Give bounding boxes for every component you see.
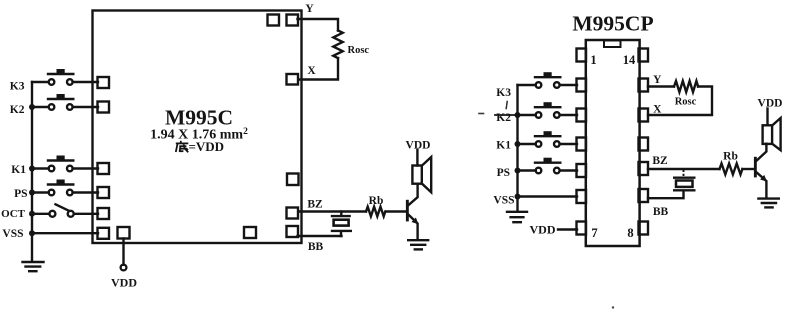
pushbutton switch K3 (right): [535, 72, 560, 88]
junction VSS/bus: [29, 230, 35, 236]
pin 5 PS (U2 left): [577, 164, 587, 177]
U2 index notch: [604, 41, 621, 48]
pad K2 (U1 left edge): [98, 102, 110, 113]
pad X (U1 right edge): [287, 74, 299, 85]
wire Rb to Q2 base: [742, 168, 753, 170]
piezo buzzer BZ2 (right): [648, 170, 694, 198]
label VDD (left bottom): [111, 276, 137, 290]
label net PS (right): [497, 167, 510, 179]
transistor Q2 (NPN, right): [754, 144, 767, 198]
wire BZ pad to Rb: [299, 210, 367, 212]
wire K1 row (right): [518, 143, 578, 145]
svg-text:K1: K1: [496, 139, 511, 151]
pushbutton switch K2 (right): [535, 102, 560, 118]
pin 7 VDD (U2 left): [577, 222, 587, 235]
ground Q1 emitter: [408, 240, 428, 249]
pushbutton switch PS: [48, 180, 73, 196]
pushbutton switch K3: [48, 69, 73, 85]
svg-text:VSS: VSS: [493, 194, 514, 206]
label net OCT: [1, 208, 26, 220]
svg-text:VSS: VSS: [2, 228, 23, 240]
label net BZ (right): [652, 155, 668, 167]
label net K2 (right): [496, 112, 511, 124]
resistor Rosc (left, vertical): [333, 31, 342, 59]
svg-text:Rosc: Rosc: [348, 45, 370, 56]
ground VSS (right circuit): [507, 212, 527, 222]
svg-text:X: X: [307, 65, 316, 77]
svg-text:1: 1: [590, 53, 596, 67]
svg-text:VDD: VDD: [406, 140, 431, 152]
wire Rb to Q1 base: [386, 210, 406, 212]
label net BZ (left): [307, 199, 323, 211]
label Rosc (left): [348, 45, 370, 56]
IC U2 M995CP DIP-14 body: [586, 40, 640, 246]
wire K2 row: [32, 106, 98, 108]
svg-text:=VDD: =VDD: [189, 139, 225, 154]
pad top spare (U1 top edge): [268, 15, 280, 26]
svg-text:K2: K2: [10, 104, 25, 116]
label net BB (right): [653, 206, 669, 218]
wire Y pad to Rosc: [298, 19, 339, 31]
wire K2 row (right): [518, 114, 578, 116]
svg-text:VDD: VDD: [758, 98, 783, 110]
ground Q2 emitter: [758, 199, 778, 208]
resistor Rb (right, horizontal): [720, 164, 743, 175]
wire K1 row: [32, 167, 98, 169]
label node Y (right): [653, 74, 662, 86]
label U1 part number M995C: [165, 106, 233, 130]
label VDD (left speaker): [406, 140, 431, 152]
svg-text:BB: BB: [653, 206, 669, 218]
wire K3 row (right): [518, 84, 578, 86]
label Rosc (right): [675, 97, 697, 108]
scan mark left of K2 label: [479, 113, 484, 115]
IC U1 M995C die outline: [93, 11, 302, 244]
resistor Rb (left, horizontal): [366, 207, 385, 217]
pin 2 K3 (U2 left): [577, 79, 587, 92]
svg-text:M995CP: M995CP: [572, 12, 653, 36]
svg-text:14: 14: [623, 53, 636, 67]
label net PS: [14, 188, 27, 200]
svg-text:BB: BB: [308, 241, 324, 253]
wire VSS bus (left rail): [31, 82, 33, 261]
svg-text:Rb: Rb: [723, 151, 738, 163]
label node X (left): [307, 65, 316, 77]
pushbutton switch K1 (right): [535, 131, 560, 147]
svg-text:Rb: Rb: [369, 195, 384, 207]
label Rb (left): [369, 195, 384, 207]
wire VSS row (right): [518, 195, 578, 197]
label net K3 (right): [496, 87, 511, 99]
pad VDD (U1 bottom edge): [118, 227, 130, 239]
junction K1/bus: [29, 166, 35, 172]
label U1 substrate note (CJK glyph) =VDD: [176, 139, 224, 154]
svg-text:K3: K3: [496, 87, 511, 99]
label net BB (left): [308, 241, 324, 253]
wire pin 10 to Rb: [648, 168, 720, 170]
label net K3: [10, 81, 25, 93]
transistor Q1 (NPN, left): [406, 184, 419, 239]
svg-text:K2: K2: [496, 112, 511, 124]
svg-text:Y: Y: [305, 3, 314, 15]
wire Rosc to X pad: [299, 58, 339, 79]
svg-text:VDD: VDD: [111, 276, 137, 290]
label Rb (right): [723, 151, 738, 163]
wire pin 13 to Rosc: [648, 85, 674, 87]
junction PS/bus (right): [515, 168, 521, 174]
wire VDD to pin 7: [558, 228, 577, 230]
wire BB pad to piezo: [298, 235, 342, 237]
pin 14 (U2 right): [639, 49, 649, 62]
svg-text:VDD: VDD: [530, 222, 556, 236]
label net VSS (right): [493, 194, 514, 206]
wire VSS row: [32, 232, 98, 234]
label net K1: [11, 164, 26, 176]
pin number 7: [591, 226, 597, 240]
ground VSS (left circuit): [23, 262, 44, 271]
wire Rosc to pin 12 (X): [648, 87, 712, 116]
scan tick above K2 label: [506, 102, 507, 109]
svg-text:Rosc: Rosc: [675, 97, 697, 108]
svg-text:X: X: [653, 104, 662, 116]
pin 6 VSS (U2 left): [577, 190, 587, 203]
wire OCT row: [32, 213, 98, 215]
junction K2/bus: [29, 104, 35, 110]
svg-text:BZ: BZ: [307, 199, 323, 211]
pad Y (U1 top right corner): [287, 15, 299, 26]
pushbutton switch PS (right): [535, 158, 560, 174]
wire VDD pad stub: [122, 239, 124, 265]
svg-text:PS: PS: [14, 188, 27, 200]
pin 13 Y (U2 right): [639, 79, 649, 92]
pad right spare (U1 right edge): [287, 174, 299, 186]
junction K1/bus (right): [515, 141, 521, 147]
SPST switch OCT: [49, 204, 73, 217]
label VDD (right speaker): [758, 98, 783, 110]
junction VSS/bus (right): [515, 194, 521, 200]
label net K2: [10, 104, 25, 116]
pin 11 (U2 right): [639, 138, 649, 151]
junction K2/bus (right): [515, 112, 521, 118]
wire VDD to LS2: [766, 109, 768, 126]
svg-text:BZ: BZ: [652, 155, 668, 167]
label U1 die size 1.94 X 1.76 mm2: [150, 127, 248, 143]
pad PS (U1 left edge): [98, 187, 110, 198]
resistor Rosc (right, horizontal): [674, 81, 698, 92]
pad BZ (U1 right edge): [287, 208, 299, 219]
wire PS row: [32, 191, 98, 193]
pin 9 BB (U2 right): [639, 189, 649, 202]
svg-text:M995C: M995C: [165, 106, 233, 130]
pin number 1: [590, 53, 596, 67]
pad VSS (U1 left edge): [98, 228, 110, 239]
wire PS row (right): [518, 169, 578, 171]
pin 3 K2 (U2 left): [577, 109, 587, 122]
pin number 8: [627, 226, 633, 240]
pin 4 K1 (U2 left): [577, 138, 587, 151]
svg-text:PS: PS: [497, 167, 510, 179]
wire VDD to LS1: [416, 150, 418, 166]
pin 10 BZ (U2 right): [639, 162, 649, 175]
svg-text:Y: Y: [653, 74, 662, 86]
label VDD (pin 7): [530, 222, 556, 236]
terminal VDD (open circle): [121, 265, 127, 271]
label net K1 (right): [496, 139, 511, 151]
svg-text:OCT: OCT: [1, 208, 26, 220]
pad K3 (U1 left edge): [98, 77, 110, 88]
pin 12 X (U2 right): [639, 109, 649, 122]
label U2 part number M995CP: [572, 12, 653, 36]
svg-text:K3: K3: [10, 81, 25, 93]
pushbutton switch K1: [48, 156, 73, 172]
pad OCT (U1 left edge): [98, 208, 110, 219]
junction PS/bus: [29, 190, 35, 196]
piezo buzzer BZ1 (left): [332, 212, 351, 237]
pin 8 (U2 right): [639, 222, 649, 235]
label net VSS: [2, 228, 23, 240]
pin number 14: [623, 53, 636, 67]
scan speck bottom center: [612, 306, 614, 308]
speaker LS2 (right): [763, 118, 781, 150]
speaker LS1 (left): [412, 157, 431, 192]
junction OCT/bus: [29, 211, 35, 217]
wire VSS bus (right rail): [516, 85, 518, 211]
label node Y (left): [305, 3, 314, 15]
svg-text:K1: K1: [11, 164, 26, 176]
pad K1 (U1 left edge): [98, 163, 110, 174]
svg-text:7: 7: [591, 226, 597, 240]
pushbutton switch K2: [48, 94, 73, 110]
pad BB (U1 right edge): [287, 226, 299, 237]
label node X (right): [653, 104, 662, 116]
pad bottom spare (U1 bottom edge): [244, 227, 256, 238]
pin 1 (U2 left): [577, 49, 587, 62]
wire K3 row: [32, 81, 98, 83]
svg-text:8: 8: [627, 226, 633, 240]
wire stub through K2 label: [495, 114, 518, 116]
